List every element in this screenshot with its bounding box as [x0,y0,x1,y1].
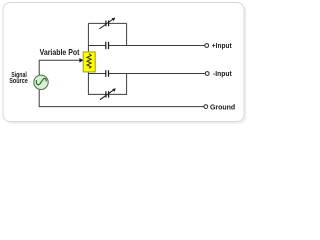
label Signal Source [9,70,28,85]
wire: upper-right vertical [126,23,128,45]
wire: +Input rail left of cap [88,45,105,47]
terminal -Input [205,72,209,76]
wire: source top lead up and right to pot wiper [39,60,80,75]
svg-text:Variable Pot: Variable Pot [40,47,80,57]
wire: top branch right segment [109,22,127,24]
wiper arrowhead into pot [79,58,83,63]
wire: +Input rail right of cap [109,45,205,47]
wire: top branch left segment [88,22,106,24]
wire: lower loop right segment and vertical [109,74,127,95]
svg-text:Source: Source [9,76,28,85]
wire: source bottom lead down to ground rail [39,90,204,107]
wire: -Input rail right of cap [109,73,206,75]
AC signal source V1 [34,75,48,89]
wire: main vertical from top branch to pot top [87,23,89,52]
card shadow [5,5,247,125]
wire: lower loop left vertical [88,74,106,95]
capacitor (fixed, +Input) [106,42,109,49]
potentiometer R1 (variable pot) [83,52,95,74]
variable capacitor (top) [99,18,115,29]
terminal Ground [204,105,208,109]
terminal +Input [205,44,209,48]
svg-text:-Input: -Input [213,69,232,78]
svg-text:Ground: Ground [210,102,236,111]
card background [3,3,244,122]
svg-text:+Input: +Input [212,41,232,50]
wire: -Input rail left of cap [88,73,105,75]
variable capacitor (bottom) [100,88,116,99]
capacitor (fixed, -Input) [106,70,109,77]
